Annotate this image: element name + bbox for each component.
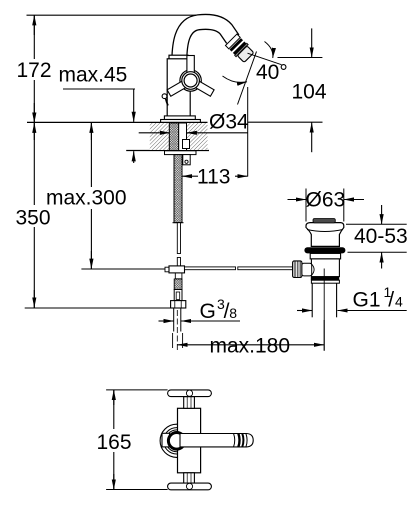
bottom view ball joint [168,433,185,450]
svg-text:104: 104 [292,81,327,104]
svg-text:172: 172 [17,59,52,82]
svg-text:165: 165 [97,431,132,454]
drain pull knob on body [162,94,168,106]
drain seal ring [304,247,345,253]
bottom view spout [180,434,253,447]
horizontal pop-up rod [81,267,292,270]
drain knob knurled [293,261,315,278]
dim max.180 [173,320,325,357]
drain flange [306,223,344,247]
svg-text:113: 113 [197,166,230,189]
dim 165 [97,390,168,490]
dim 113 [182,87,248,189]
svg-text:Ø63: Ø63 [306,188,346,211]
counter bottom line [126,150,209,152]
counter section hatch [150,123,208,150]
svg-text:40-53: 40-53 [354,225,408,248]
dim 40 degrees [223,42,288,105]
dim Ø34 text [209,111,249,134]
dim 172 [17,15,197,123]
dim G3/8 [159,296,241,323]
bottom view lever bracket [162,433,170,447]
drain plug top [313,219,335,223]
hose below joint [174,273,182,301]
svg-text:4: 4 [395,294,403,310]
svg-text:G1: G1 [353,288,381,311]
bottom view rosette circles [160,424,193,457]
counter top line [27,121,323,123]
G3/8 hex nut [171,301,186,308]
aerator [225,34,255,64]
faucet body [167,55,190,116]
dim 40-53 [346,205,408,269]
svg-text:Ø34: Ø34 [209,111,249,134]
svg-text:/: / [388,288,394,311]
svg-text:max.180: max.180 [210,334,291,357]
bottom view bottom stem and bar [168,473,212,490]
svg-text:max.45: max.45 [59,64,128,87]
dim 350 [16,123,171,308]
svg-text:350: 350 [16,207,51,230]
dim 104 [278,28,327,152]
rod pivot joint [165,266,185,273]
svg-text:8: 8 [229,305,237,321]
G3/8 tailpiece [174,308,181,350]
dim G1 1/4 [297,284,407,311]
drain valve body [310,253,340,283]
svg-text:40°: 40° [256,61,288,84]
svg-text:max.300: max.300 [46,187,127,210]
spout tube [179,22,233,60]
base escutcheon [161,116,201,123]
mounting shank [169,123,189,151]
cross handle [167,56,214,97]
bottom view body [178,408,201,473]
dim max.300 [46,123,127,269]
supply hose braided [173,155,184,223]
washer and clamp under counter [165,151,197,165]
pull rod upper [177,223,180,267]
dim max.45 [59,64,136,164]
dim Ø34 leader [139,132,248,134]
bottom view top stem and bar [168,390,212,408]
drain tailpipe [312,269,336,351]
dim Ø63 [288,188,365,221]
svg-text:G: G [200,300,216,323]
